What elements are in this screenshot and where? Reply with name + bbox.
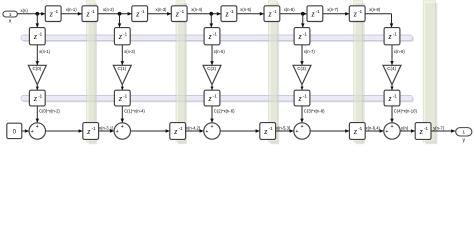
- svg-text:+: +: [300, 124, 303, 130]
- svg-text:-1: -1: [303, 31, 307, 36]
- svg-text:x(n-3): x(n-3): [156, 7, 168, 12]
- svg-text:C(3): C(3): [297, 66, 306, 71]
- svg-text:x(n-6): x(n-6): [284, 7, 296, 12]
- svg-text:x(n-3): x(n-3): [124, 49, 136, 54]
- svg-text:x(n-3,1): x(n-3,1): [99, 125, 114, 130]
- svg-text:C(1): C(1): [118, 66, 127, 71]
- svg-text:1: 1: [463, 130, 466, 135]
- svg-text:+: +: [116, 129, 119, 135]
- svg-text:y(n): y(n): [401, 125, 409, 130]
- svg-text:x(n-4,2): x(n-4,2): [186, 125, 201, 130]
- svg-text:-1: -1: [393, 31, 397, 36]
- svg-text:+: +: [205, 129, 208, 135]
- svg-text:C(3)*x(n-8): C(3)*x(n-8): [304, 108, 325, 113]
- svg-text:+: +: [36, 124, 39, 130]
- svg-text:+: +: [390, 124, 393, 130]
- svg-text:x(n-1): x(n-1): [66, 7, 78, 12]
- svg-text:+: +: [121, 124, 124, 130]
- svg-text:-1: -1: [230, 9, 234, 14]
- svg-text:-1: -1: [54, 9, 58, 14]
- svg-text:-1: -1: [123, 93, 127, 98]
- svg-text:+: +: [210, 124, 213, 130]
- svg-text:-1: -1: [273, 9, 277, 14]
- svg-text:-1: -1: [179, 126, 183, 131]
- svg-text:C(2): C(2): [207, 66, 216, 71]
- svg-text:-1: -1: [141, 9, 145, 14]
- svg-text:-1: -1: [393, 93, 397, 98]
- svg-text:+: +: [31, 129, 34, 135]
- svg-text:-1: -1: [213, 31, 217, 36]
- svg-text:x(n-5,3): x(n-5,3): [276, 125, 291, 130]
- svg-text:-1: -1: [38, 31, 42, 36]
- svg-text:1: 1: [9, 12, 12, 17]
- svg-text:C(4): C(4): [387, 66, 396, 71]
- svg-text:-1: -1: [269, 126, 273, 131]
- svg-text:-1: -1: [92, 126, 96, 131]
- svg-text:C(2)*x(n-6): C(2)*x(n-6): [214, 108, 235, 113]
- svg-text:x(n-6,4): x(n-6,4): [366, 125, 381, 130]
- svg-text:-1: -1: [180, 9, 184, 14]
- svg-text:x(n-7): x(n-7): [304, 49, 316, 54]
- svg-text:-1: -1: [38, 93, 42, 98]
- svg-text:x(n-2): x(n-2): [103, 7, 115, 12]
- svg-text:x(n-7): x(n-7): [327, 7, 339, 12]
- svg-text:-1: -1: [123, 31, 127, 36]
- svg-text:-1: -1: [213, 93, 217, 98]
- svg-text:-1: -1: [91, 9, 95, 14]
- svg-text:x(n-5): x(n-5): [240, 7, 252, 12]
- svg-text:x(n-9): x(n-9): [394, 49, 406, 54]
- svg-text:-1: -1: [303, 93, 307, 98]
- svg-text:+: +: [385, 129, 388, 135]
- svg-text:x(n-1): x(n-1): [39, 49, 51, 54]
- svg-text:-1: -1: [316, 9, 320, 14]
- svg-text:-1: -1: [358, 126, 362, 131]
- svg-text:C(4)*x(n-10): C(4)*x(n-10): [394, 108, 418, 113]
- svg-text:+: +: [295, 129, 298, 135]
- svg-text:C(0): C(0): [33, 66, 42, 71]
- svg-text:x(n-8): x(n-8): [369, 7, 381, 12]
- svg-text:-1: -1: [424, 126, 428, 131]
- svg-text:x(n-4): x(n-4): [191, 7, 203, 12]
- svg-text:C(0)*x(n-2): C(0)*x(n-2): [39, 108, 60, 113]
- svg-text:-1: -1: [358, 9, 362, 14]
- svg-text:C(1)*x(n-4): C(1)*x(n-4): [124, 108, 145, 113]
- svg-text:x(n): x(n): [21, 8, 29, 13]
- svg-text:y(n-7): y(n-7): [433, 125, 445, 130]
- svg-text:x(n-5): x(n-5): [214, 49, 226, 54]
